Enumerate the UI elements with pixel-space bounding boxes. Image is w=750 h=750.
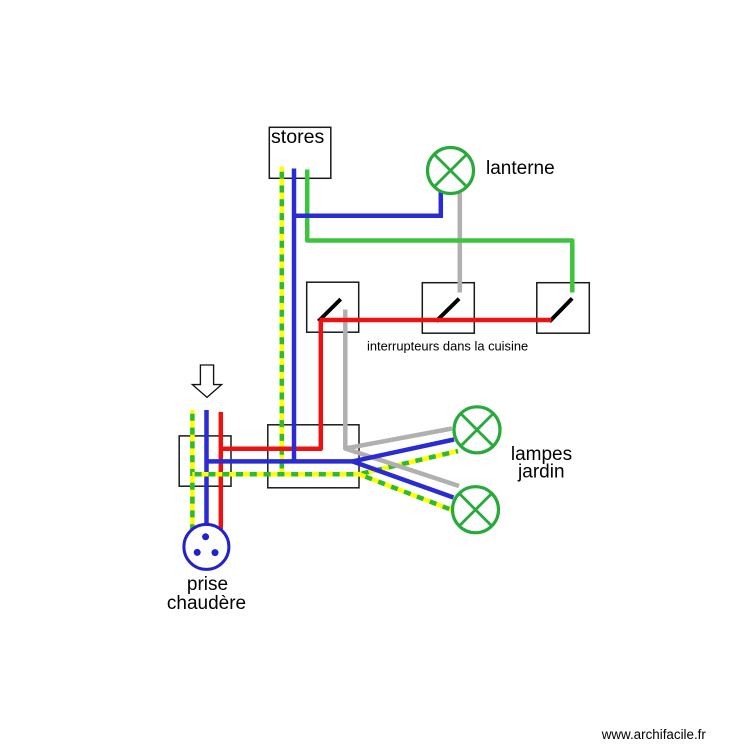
wire green stores to switch S3 — [307, 170, 572, 293]
wire blue diagonal to garden lamp 1 — [353, 440, 455, 462]
wire earth E1 vertical from stores box — [280, 167, 285, 475]
wire red supply vertical to socket — [219, 412, 224, 529]
lamp garden 1 symbol — [454, 407, 500, 453]
wire red switch S1 down into junction box — [221, 320, 321, 449]
svg-text:interrupteurs dans la cuisine: interrupteurs dans la cuisine — [367, 339, 528, 354]
wire blue stores vertical down — [292, 169, 297, 462]
svg-text:stores: stores — [271, 126, 325, 148]
svg-text:jardin: jardin — [517, 461, 564, 482]
wire earth E3 vertical supply to socket — [190, 410, 195, 529]
switch S2 box — [422, 283, 474, 334]
svg-text:lanterne: lanterne — [486, 158, 555, 179]
wire earth E4 diagonal to garden lamp 1 — [359, 451, 458, 474]
switch S2 lever — [436, 299, 459, 322]
wire earth E2 horizontal through junction box — [192, 472, 359, 477]
stores box — [269, 127, 331, 178]
svg-text:chaudère: chaudère — [167, 593, 246, 614]
wire blue branch to lantern — [294, 192, 441, 216]
left derivation box — [179, 436, 231, 486]
wire blue supply vertical to socket — [204, 410, 209, 523]
wire red phase through switches S1 S2 S3 — [320, 318, 552, 323]
switch S1 lever — [318, 299, 340, 321]
switch S3 box — [537, 283, 590, 334]
switch S3 lever — [550, 298, 573, 321]
socket prise chaudere symbol — [184, 524, 229, 569]
label prise chaudere — [167, 574, 246, 614]
junction box — [268, 425, 359, 488]
wire blue horizontal in junction box — [207, 459, 353, 464]
lamp lanterne symbol — [428, 148, 474, 194]
wire gray lantern to switch S2 — [458, 193, 463, 293]
wire earth E5 diagonal to garden lamp 2 — [359, 474, 452, 510]
wire gray fan point to garden lamp 2 — [345, 449, 459, 487]
label lampes jardin — [511, 444, 572, 482]
svg-text:www.archifacile.fr: www.archifacile.fr — [601, 727, 707, 742]
lamp garden 2 symbol — [453, 487, 499, 533]
switch S1 box — [307, 282, 359, 332]
wire gray switch S1 down to fan point — [345, 310, 452, 449]
supply entry arrow — [192, 365, 221, 397]
wire blue diagonal to garden lamp 2 — [353, 461, 454, 497]
